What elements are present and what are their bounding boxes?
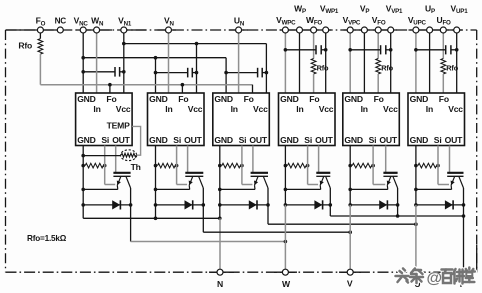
svg-text:Si: Si <box>173 135 181 145</box>
svg-text:Rfo: Rfo <box>446 64 458 73</box>
svg-text:In: In <box>426 104 433 114</box>
svg-text:OUT: OUT <box>315 135 333 145</box>
svg-text:Si: Si <box>369 135 377 145</box>
svg-text:V: V <box>347 278 353 288</box>
svg-text:Fo: Fo <box>439 94 449 104</box>
svg-text:NC: NC <box>55 17 67 26</box>
svg-text:GND: GND <box>149 135 168 145</box>
svg-text:OUT: OUT <box>445 135 463 145</box>
svg-text:Rfo=1.5kΩ: Rfo=1.5kΩ <box>27 234 67 243</box>
svg-text:Si: Si <box>434 135 442 145</box>
svg-text:TEMP: TEMP <box>107 121 131 131</box>
svg-text:Vcc: Vcc <box>116 104 131 114</box>
svg-text:GND: GND <box>280 135 299 145</box>
svg-text:@: @ <box>427 270 443 287</box>
svg-text:GND: GND <box>77 135 96 145</box>
svg-text:GND: GND <box>344 135 363 145</box>
svg-text:GND: GND <box>77 94 96 104</box>
svg-text:W: W <box>282 279 291 289</box>
svg-text:Rfo: Rfo <box>317 64 329 73</box>
svg-text:Fo: Fo <box>374 94 384 104</box>
svg-text:GND: GND <box>214 94 233 104</box>
svg-text:In: In <box>165 104 172 114</box>
svg-text:Fo: Fo <box>178 94 188 104</box>
svg-text:N: N <box>217 279 223 289</box>
svg-text:Fo: Fo <box>309 94 319 104</box>
svg-text:Vcc: Vcc <box>188 104 203 114</box>
svg-text:OUT: OUT <box>249 135 267 145</box>
svg-text:GND: GND <box>410 135 429 145</box>
svg-text:Si: Si <box>101 135 109 145</box>
svg-text:Rfo: Rfo <box>18 40 32 50</box>
svg-text:GND: GND <box>410 94 429 104</box>
svg-text:Vcc: Vcc <box>448 104 463 114</box>
svg-text:GND: GND <box>214 135 233 145</box>
svg-text:Rfo: Rfo <box>381 64 393 73</box>
svg-text:OUT: OUT <box>184 135 202 145</box>
svg-text:In: In <box>231 104 238 114</box>
svg-text:Fo: Fo <box>106 94 116 104</box>
svg-text:GND: GND <box>149 94 168 104</box>
svg-text:Vcc: Vcc <box>253 104 268 114</box>
svg-text:GND: GND <box>344 94 363 104</box>
svg-text:Vcc: Vcc <box>319 104 334 114</box>
svg-text:Fo: Fo <box>244 94 254 104</box>
svg-text:OUT: OUT <box>112 135 130 145</box>
svg-text:Th: Th <box>131 162 141 172</box>
svg-text:GND: GND <box>280 94 299 104</box>
svg-text:In: In <box>93 104 100 114</box>
svg-text:Si: Si <box>304 135 312 145</box>
svg-text:In: In <box>361 104 368 114</box>
svg-text:Si: Si <box>239 135 247 145</box>
svg-text:Vcc: Vcc <box>383 104 398 114</box>
svg-text:OUT: OUT <box>379 135 397 145</box>
svg-text:In: In <box>296 104 303 114</box>
